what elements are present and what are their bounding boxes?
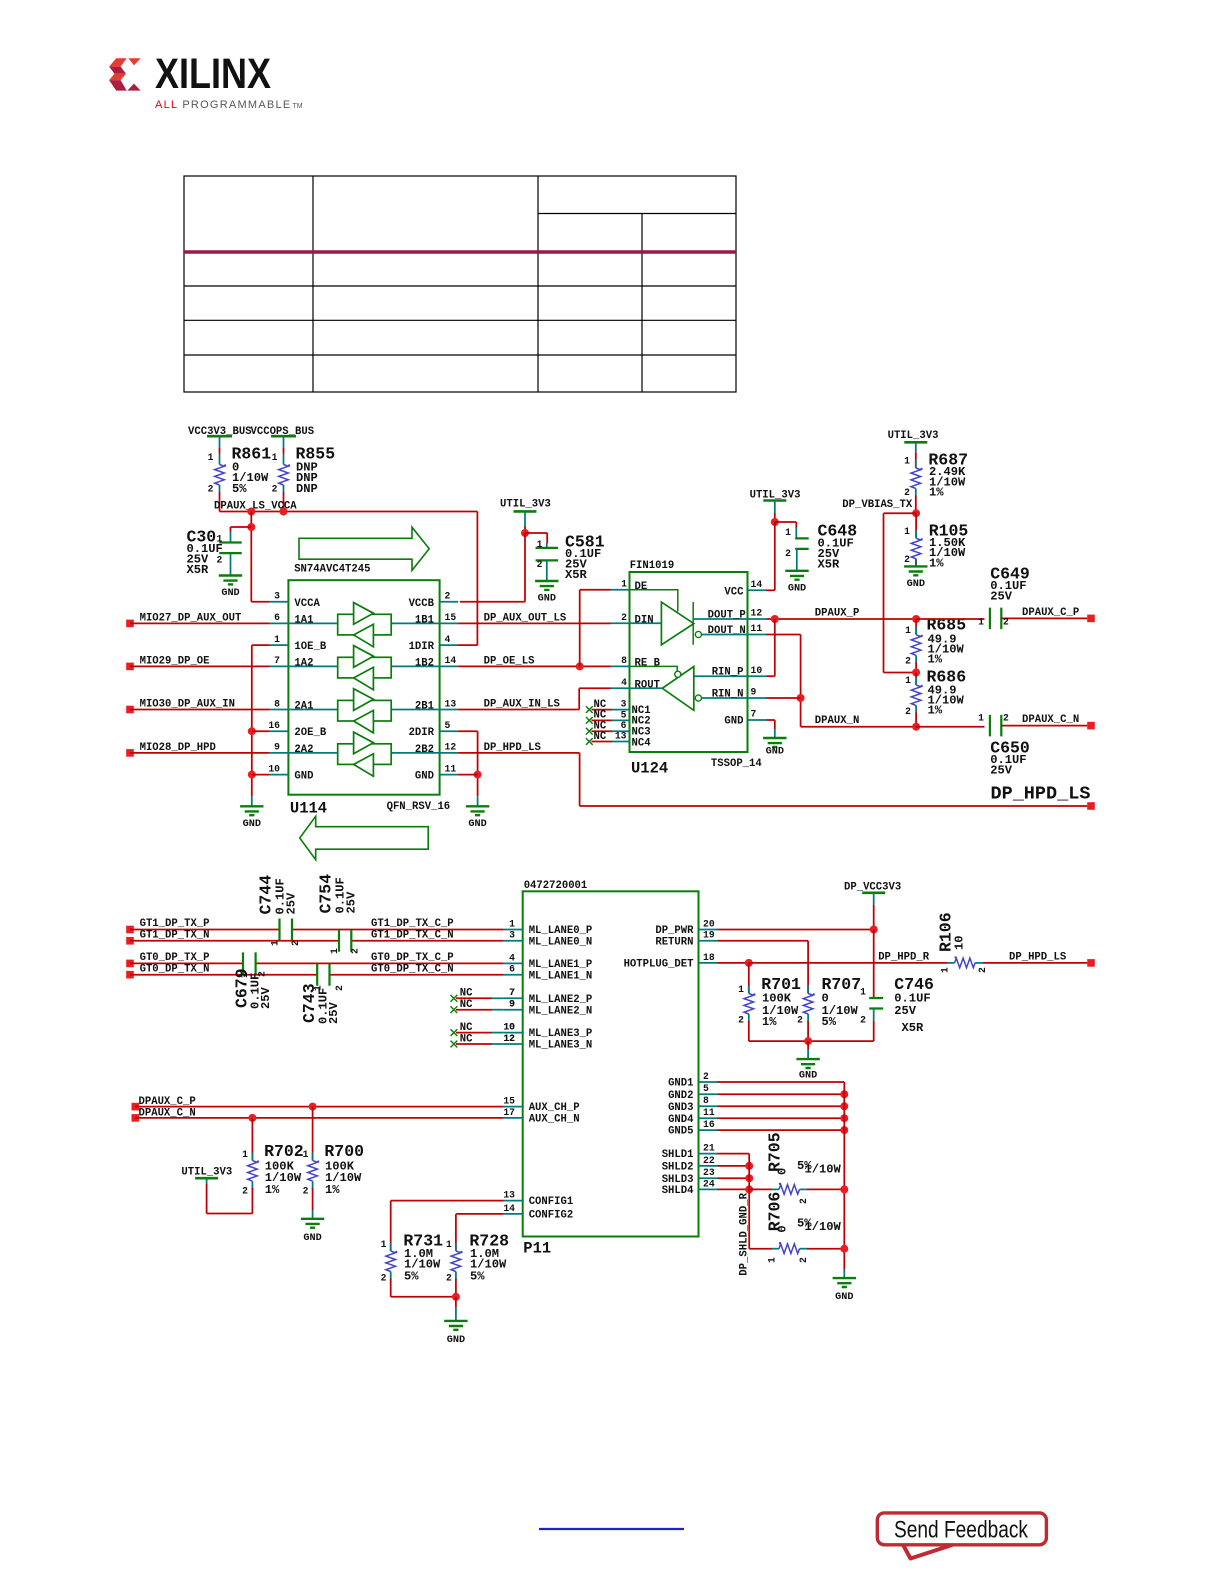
svg-text:7: 7 bbox=[509, 987, 515, 998]
svg-text:1: 1 bbox=[978, 713, 984, 724]
svg-text:ML_LANE2_N: ML_LANE2_N bbox=[529, 1005, 593, 1017]
svg-text:1DIR: 1DIR bbox=[409, 641, 435, 653]
svg-text:ML_LANE3_N: ML_LANE3_N bbox=[529, 1040, 593, 1052]
svg-text:15: 15 bbox=[445, 612, 457, 623]
svg-text:5%: 5% bbox=[470, 1270, 485, 1284]
svg-text:AUX_CH_N: AUX_CH_N bbox=[529, 1114, 580, 1126]
svg-text:HOTPLUG_DET: HOTPLUG_DET bbox=[624, 959, 695, 971]
svg-text:U114: U114 bbox=[290, 800, 327, 818]
svg-text:8: 8 bbox=[703, 1095, 709, 1106]
svg-text:2: 2 bbox=[290, 940, 301, 946]
svg-text:2: 2 bbox=[977, 967, 988, 973]
svg-text:1A1: 1A1 bbox=[294, 615, 313, 627]
svg-text:2DIR: 2DIR bbox=[409, 727, 435, 739]
svg-text:4: 4 bbox=[621, 677, 627, 688]
svg-text:1: 1 bbox=[621, 579, 627, 590]
svg-text:0: 0 bbox=[776, 1225, 790, 1232]
svg-text:25V: 25V bbox=[259, 986, 273, 1009]
svg-text:25V: 25V bbox=[327, 1001, 341, 1024]
svg-text:9: 9 bbox=[274, 742, 280, 753]
svg-text:GND: GND bbox=[221, 588, 239, 599]
svg-text:14: 14 bbox=[445, 655, 457, 666]
svg-text:GND: GND bbox=[835, 1292, 853, 1303]
svg-text:2B1: 2B1 bbox=[415, 701, 434, 713]
svg-text:RIN_N: RIN_N bbox=[712, 689, 744, 701]
svg-text:1: 1 bbox=[537, 539, 543, 550]
svg-text:CONFIG2: CONFIG2 bbox=[529, 1210, 574, 1222]
svg-text:9: 9 bbox=[751, 687, 757, 698]
svg-text:13: 13 bbox=[503, 1190, 515, 1201]
svg-text:2: 2 bbox=[272, 484, 278, 495]
svg-text:GND3: GND3 bbox=[668, 1102, 693, 1114]
svg-text:6: 6 bbox=[509, 964, 515, 975]
svg-text:10: 10 bbox=[953, 935, 967, 950]
svg-text:UTIL_3V3: UTIL_3V3 bbox=[500, 499, 551, 511]
svg-text:GND: GND bbox=[447, 1335, 465, 1346]
svg-text:25V: 25V bbox=[990, 590, 1013, 604]
svg-text:DP_HPD_R: DP_HPD_R bbox=[878, 951, 930, 963]
svg-text:1: 1 bbox=[274, 634, 280, 645]
svg-text:25V: 25V bbox=[990, 763, 1013, 777]
svg-text:2: 2 bbox=[217, 554, 223, 565]
svg-text:12: 12 bbox=[445, 742, 457, 753]
svg-text:DP_HPD_LS: DP_HPD_LS bbox=[1009, 951, 1067, 963]
svg-text:1: 1 bbox=[270, 940, 281, 946]
svg-text:DP_PWR: DP_PWR bbox=[655, 925, 694, 937]
svg-text:1: 1 bbox=[767, 1257, 778, 1263]
svg-text:GND: GND bbox=[303, 1233, 321, 1244]
svg-text:22: 22 bbox=[703, 1155, 715, 1166]
svg-text:10: 10 bbox=[503, 1022, 515, 1033]
svg-text:5%: 5% bbox=[232, 482, 247, 496]
svg-text:2B2: 2B2 bbox=[415, 744, 434, 756]
svg-text:ML_LANE3_P: ML_LANE3_P bbox=[529, 1028, 593, 1040]
svg-text:10: 10 bbox=[751, 665, 763, 676]
svg-text:1%: 1% bbox=[928, 652, 943, 666]
svg-text:12: 12 bbox=[751, 608, 763, 619]
svg-text:GND: GND bbox=[907, 579, 925, 590]
svg-text:Send Feedback: Send Feedback bbox=[894, 1517, 1029, 1544]
svg-text:3: 3 bbox=[621, 699, 627, 710]
svg-text:5%: 5% bbox=[404, 1270, 419, 1284]
svg-text:VCCB: VCCB bbox=[409, 598, 435, 610]
svg-text:16: 16 bbox=[703, 1119, 715, 1130]
svg-text:ML_LANE1_N: ML_LANE1_N bbox=[529, 970, 593, 982]
svg-text:DPAUX_C_P: DPAUX_C_P bbox=[1022, 607, 1079, 619]
svg-text:1%: 1% bbox=[762, 1015, 777, 1029]
svg-text:P11: P11 bbox=[523, 1240, 551, 1258]
svg-text:24: 24 bbox=[703, 1178, 715, 1189]
svg-text:2: 2 bbox=[904, 487, 910, 498]
svg-text:MIO27_DP_AUX_OUT: MIO27_DP_AUX_OUT bbox=[140, 613, 242, 625]
svg-text:6: 6 bbox=[274, 612, 280, 623]
svg-text:2: 2 bbox=[334, 985, 345, 991]
svg-text:X5R: X5R bbox=[187, 563, 210, 577]
svg-text:SHLD4: SHLD4 bbox=[662, 1185, 694, 1197]
svg-text:ALLPROGRAMMABLETM: ALLPROGRAMMABLETM bbox=[155, 99, 303, 111]
svg-text:1%: 1% bbox=[928, 703, 943, 717]
svg-text:1: 1 bbox=[940, 967, 951, 973]
svg-text:FIN1019: FIN1019 bbox=[630, 560, 675, 572]
svg-text:12: 12 bbox=[503, 1033, 515, 1044]
svg-text:0: 0 bbox=[776, 1168, 790, 1175]
svg-text:ROUT: ROUT bbox=[635, 680, 661, 692]
svg-text:1: 1 bbox=[904, 526, 910, 537]
svg-text:GND: GND bbox=[724, 716, 743, 728]
svg-text:2: 2 bbox=[537, 559, 543, 570]
svg-text:2: 2 bbox=[257, 971, 268, 977]
svg-text:X5R: X5R bbox=[902, 1021, 925, 1035]
svg-text:CONFIG1: CONFIG1 bbox=[529, 1196, 574, 1208]
svg-text:MIO29_DP_OE: MIO29_DP_OE bbox=[140, 656, 210, 668]
svg-text:XILINX: XILINX bbox=[155, 50, 271, 98]
svg-text:1: 1 bbox=[446, 1239, 452, 1250]
svg-text:GND: GND bbox=[468, 819, 486, 830]
svg-text:GT0_DP_TX_N: GT0_DP_TX_N bbox=[140, 963, 210, 975]
svg-text:1B1: 1B1 bbox=[415, 615, 434, 627]
svg-text:R702: R702 bbox=[264, 1142, 304, 1161]
svg-text:5: 5 bbox=[445, 720, 451, 731]
svg-text:15: 15 bbox=[503, 1096, 515, 1107]
svg-text:2: 2 bbox=[860, 1015, 866, 1026]
svg-text:2: 2 bbox=[1003, 616, 1009, 627]
svg-text:1OE_B: 1OE_B bbox=[294, 641, 326, 653]
svg-text:1B2: 1B2 bbox=[415, 658, 434, 670]
svg-text:DIN: DIN bbox=[635, 615, 654, 627]
svg-text:GT1_DP_TX_C_N: GT1_DP_TX_C_N bbox=[371, 929, 454, 941]
svg-text:10: 10 bbox=[268, 763, 280, 774]
svg-text:1: 1 bbox=[208, 452, 214, 463]
svg-text:GND: GND bbox=[294, 771, 313, 783]
svg-text:DOUT_N: DOUT_N bbox=[708, 625, 746, 637]
svg-text:SN74AVC4T245: SN74AVC4T245 bbox=[294, 564, 370, 576]
svg-text:2: 2 bbox=[621, 612, 627, 623]
svg-text:1: 1 bbox=[242, 1149, 248, 1160]
svg-text:17: 17 bbox=[503, 1107, 515, 1118]
svg-text:2: 2 bbox=[381, 1273, 387, 1284]
svg-text:DPAUX_C_N: DPAUX_C_N bbox=[1022, 714, 1079, 726]
svg-text:1%: 1% bbox=[325, 1183, 340, 1197]
svg-text:2: 2 bbox=[904, 554, 910, 565]
svg-text:2: 2 bbox=[446, 1273, 452, 1284]
svg-text:RETURN: RETURN bbox=[655, 936, 693, 948]
svg-text:25V: 25V bbox=[345, 891, 359, 914]
svg-text:2: 2 bbox=[905, 655, 911, 666]
svg-text:2: 2 bbox=[303, 1186, 309, 1197]
svg-text:3: 3 bbox=[509, 930, 515, 941]
svg-text:4: 4 bbox=[509, 952, 515, 963]
svg-text:GT0_DP_TX_P: GT0_DP_TX_P bbox=[140, 952, 210, 964]
svg-text:GT1_DP_TX_N: GT1_DP_TX_N bbox=[140, 929, 210, 941]
svg-text:2: 2 bbox=[1003, 713, 1009, 724]
svg-text:1%: 1% bbox=[929, 486, 944, 500]
svg-text:2OE_B: 2OE_B bbox=[294, 727, 326, 739]
svg-text:11: 11 bbox=[703, 1107, 715, 1118]
svg-text:SHLD1: SHLD1 bbox=[662, 1149, 694, 1161]
svg-text:X5R: X5R bbox=[818, 558, 841, 572]
svg-text:18: 18 bbox=[703, 952, 715, 963]
svg-text:1: 1 bbox=[303, 1149, 309, 1160]
svg-text:NC4: NC4 bbox=[632, 737, 652, 749]
svg-text:QFN_RSV_16: QFN_RSV_16 bbox=[387, 801, 451, 813]
svg-text:ML_LANE2_P: ML_LANE2_P bbox=[529, 994, 593, 1006]
svg-text:NC: NC bbox=[460, 1033, 473, 1045]
svg-text:21: 21 bbox=[703, 1143, 715, 1154]
svg-text:X5R: X5R bbox=[565, 568, 588, 582]
svg-text:GND: GND bbox=[243, 819, 261, 830]
svg-text:AUX_CH_P: AUX_CH_P bbox=[529, 1102, 580, 1114]
svg-text:SHLD3: SHLD3 bbox=[662, 1174, 694, 1186]
svg-text:UTIL_3V3: UTIL_3V3 bbox=[888, 430, 939, 442]
svg-text:1%: 1% bbox=[929, 557, 944, 571]
svg-text:GT0_DP_TX_C_N: GT0_DP_TX_C_N bbox=[371, 963, 454, 975]
svg-text:9: 9 bbox=[509, 999, 515, 1010]
svg-text:U124: U124 bbox=[631, 760, 668, 778]
svg-text:UTIL_3V3: UTIL_3V3 bbox=[181, 1167, 232, 1179]
svg-text:R705: R705 bbox=[766, 1132, 785, 1172]
svg-text:2A1: 2A1 bbox=[294, 701, 313, 713]
svg-text:5%: 5% bbox=[797, 1217, 812, 1231]
svg-text:GND: GND bbox=[799, 1071, 817, 1082]
svg-text:16: 16 bbox=[268, 720, 280, 731]
svg-text:DP_HPD_LS: DP_HPD_LS bbox=[991, 784, 1091, 805]
svg-text:20: 20 bbox=[703, 918, 715, 929]
svg-text:3: 3 bbox=[274, 591, 280, 602]
svg-text:NC: NC bbox=[460, 999, 473, 1011]
svg-text:DPAUX_N: DPAUX_N bbox=[815, 715, 860, 727]
svg-text:1: 1 bbox=[272, 452, 278, 463]
svg-text:1: 1 bbox=[313, 985, 324, 991]
svg-text:GT0_DP_TX_C_P: GT0_DP_TX_C_P bbox=[371, 952, 454, 964]
svg-text:1%: 1% bbox=[265, 1183, 280, 1197]
svg-text:1: 1 bbox=[381, 1239, 387, 1250]
svg-text:8: 8 bbox=[621, 655, 627, 666]
svg-text:DPAUX_C_N: DPAUX_C_N bbox=[139, 1107, 196, 1119]
svg-text:23: 23 bbox=[703, 1167, 715, 1178]
svg-text:2: 2 bbox=[905, 706, 911, 717]
svg-text:1: 1 bbox=[239, 972, 250, 978]
svg-text:14: 14 bbox=[503, 1203, 515, 1214]
svg-text:GND5: GND5 bbox=[668, 1126, 693, 1138]
svg-text:NC: NC bbox=[594, 731, 607, 743]
svg-text:ML_LANE0_P: ML_LANE0_P bbox=[529, 925, 593, 937]
svg-text:R700: R700 bbox=[324, 1142, 364, 1161]
svg-text:DE: DE bbox=[635, 581, 648, 593]
svg-text:7: 7 bbox=[751, 709, 757, 720]
svg-text:TSSOP_14: TSSOP_14 bbox=[711, 758, 763, 770]
svg-text:GND: GND bbox=[538, 594, 556, 605]
svg-text:1: 1 bbox=[905, 625, 911, 636]
svg-text:GND1: GND1 bbox=[668, 1078, 693, 1090]
svg-text:25V: 25V bbox=[894, 1004, 917, 1018]
svg-text:GND2: GND2 bbox=[668, 1090, 693, 1102]
svg-text:1: 1 bbox=[905, 675, 911, 686]
svg-text:8: 8 bbox=[274, 698, 280, 709]
svg-text:DPAUX_P: DPAUX_P bbox=[815, 607, 860, 619]
svg-text:13: 13 bbox=[615, 730, 627, 741]
svg-text:2: 2 bbox=[242, 1186, 248, 1197]
svg-text:2: 2 bbox=[703, 1071, 709, 1082]
svg-text:2: 2 bbox=[445, 591, 451, 602]
svg-text:1: 1 bbox=[329, 948, 340, 954]
svg-text:5%: 5% bbox=[822, 1015, 837, 1029]
svg-text:GT1_DP_TX_C_P: GT1_DP_TX_C_P bbox=[371, 918, 454, 930]
svg-text:GND4: GND4 bbox=[668, 1114, 694, 1126]
svg-text:DP_SHLD_GND_R: DP_SHLD_GND_R bbox=[739, 1192, 751, 1275]
svg-text:NC: NC bbox=[460, 988, 473, 1000]
svg-text:11: 11 bbox=[445, 763, 457, 774]
svg-text:2: 2 bbox=[798, 1198, 809, 1204]
svg-text:2: 2 bbox=[785, 548, 791, 559]
svg-text:DP_VBIAS_TX: DP_VBIAS_TX bbox=[842, 499, 913, 511]
svg-text:MIO30_DP_AUX_IN: MIO30_DP_AUX_IN bbox=[140, 699, 235, 711]
svg-text:NC: NC bbox=[460, 1022, 473, 1034]
svg-text:1A2: 1A2 bbox=[294, 658, 313, 670]
svg-text:5: 5 bbox=[703, 1083, 709, 1094]
svg-text:GND: GND bbox=[415, 771, 434, 783]
svg-text:2: 2 bbox=[738, 1015, 744, 1026]
svg-text:SHLD2: SHLD2 bbox=[662, 1162, 694, 1174]
svg-text:2: 2 bbox=[350, 948, 361, 954]
svg-text:RIN_P: RIN_P bbox=[712, 667, 744, 679]
svg-text:1: 1 bbox=[785, 527, 791, 538]
svg-text:1: 1 bbox=[738, 984, 744, 995]
svg-text:4: 4 bbox=[445, 634, 451, 645]
svg-text:1: 1 bbox=[904, 456, 910, 467]
svg-text:13: 13 bbox=[445, 698, 457, 709]
svg-text:5%: 5% bbox=[797, 1159, 812, 1173]
svg-text:DOUT_P: DOUT_P bbox=[708, 610, 746, 622]
svg-text:MIO28_DP_HPD: MIO28_DP_HPD bbox=[140, 742, 216, 754]
svg-text:5: 5 bbox=[621, 709, 627, 720]
svg-text:VCC: VCC bbox=[724, 587, 744, 599]
svg-text:DNP: DNP bbox=[296, 482, 318, 496]
svg-text:ML_LANE1_P: ML_LANE1_P bbox=[529, 959, 593, 971]
svg-text:0472720001: 0472720001 bbox=[524, 880, 588, 892]
svg-text:RE_B: RE_B bbox=[635, 658, 661, 670]
svg-text:25V: 25V bbox=[285, 892, 299, 915]
svg-text:2: 2 bbox=[208, 484, 214, 495]
svg-text:GND: GND bbox=[788, 583, 806, 594]
svg-text:11: 11 bbox=[751, 623, 763, 634]
svg-text:ML_LANE0_N: ML_LANE0_N bbox=[529, 936, 593, 948]
svg-text:1: 1 bbox=[509, 918, 515, 929]
svg-text:2: 2 bbox=[798, 1257, 809, 1263]
svg-text:1: 1 bbox=[978, 616, 984, 627]
svg-text:GND: GND bbox=[766, 747, 784, 758]
svg-text:GT1_DP_TX_P: GT1_DP_TX_P bbox=[140, 918, 210, 930]
svg-text:VCCA: VCCA bbox=[294, 598, 320, 610]
svg-text:DPAUX_C_P: DPAUX_C_P bbox=[139, 1096, 196, 1108]
svg-text:14: 14 bbox=[751, 579, 763, 590]
svg-text:7: 7 bbox=[274, 655, 280, 666]
svg-text:19: 19 bbox=[703, 930, 715, 941]
svg-text:2A2: 2A2 bbox=[294, 744, 313, 756]
